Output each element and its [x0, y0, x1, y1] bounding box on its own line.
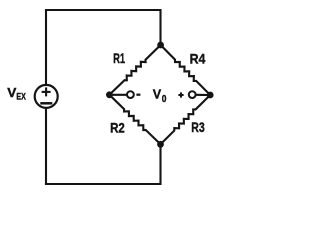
svg-text:R3: R3 [191, 119, 205, 135]
svg-text:0: 0 [162, 94, 167, 105]
source VEX circle [35, 85, 58, 108]
svg-text:R1: R1 [113, 50, 125, 66]
resistor R2 [109, 95, 160, 145]
plus sign output [178, 92, 183, 97]
resistor R3 [161, 95, 211, 144]
node top [157, 42, 164, 49]
terminal left [127, 91, 134, 98]
node right [207, 92, 214, 99]
wire node to left terminal [109, 94, 126, 96]
source plus [42, 87, 51, 96]
minus sign output [136, 94, 140, 96]
svg-text:R2: R2 [110, 120, 125, 136]
resistor R1 [109, 45, 160, 95]
node left [106, 91, 113, 98]
wire left upper [45, 10, 47, 86]
node bottom [157, 141, 164, 148]
svg-text:EX: EX [16, 92, 26, 103]
terminal right [189, 91, 196, 98]
source minus [40, 102, 52, 105]
svg-text:R4: R4 [190, 51, 206, 67]
wire bottom [46, 144, 161, 184]
resistor R4 [161, 45, 211, 95]
wire right terminal to node [196, 94, 210, 96]
svg-text:V: V [153, 87, 162, 102]
wire left lower [45, 108, 47, 185]
wire top [46, 10, 161, 45]
